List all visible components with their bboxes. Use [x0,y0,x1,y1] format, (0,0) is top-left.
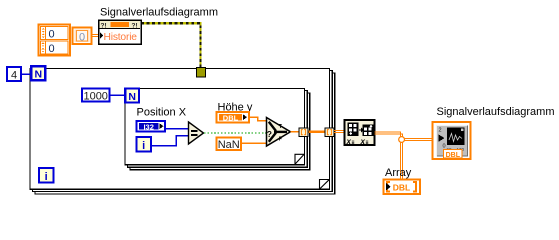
wire: inner tunnel to outer tunnel (1D array) [307,131,326,133]
wire junction dot [399,137,405,143]
svg-text:ij: ij [352,141,356,147]
wire: outer tunnel to transpose (2D array double) [334,131,345,133]
svg-text:2: 2 [439,128,442,134]
svg-text:4: 4 [11,69,17,81]
wire: 4 to N (blue scalar) [21,73,31,75]
iteration terminal i (outer) [39,168,54,183]
for-loop inner dog-ear corner [295,154,304,164]
svg-text:0: 0 [79,31,85,43]
iteration terminal i (inner) [137,137,152,152]
tunnel: inner loop indexing output [299,128,308,137]
for-loop outer (4 iterations) frame sheet 3 [35,73,335,194]
svg-text:i: i [45,171,48,183]
function node Select [267,118,291,147]
svg-text:Array: Array [385,167,412,179]
for-loop outer frame sheet 2 [33,71,333,192]
wire: junction down branch to Array indicator [401,143,403,181]
property node Signalverlaufsdiagramm [99,20,142,44]
wire: NaN to select f input [242,142,268,144]
tunnel: reference into outer loop (olive) [197,68,206,78]
for-loop outer frame sheet 1 [30,69,330,190]
wire: 1000 to N (blue scalar) [110,94,126,96]
svg-text:Historie: Historie [104,32,138,43]
label Hoehe y [218,101,253,113]
svg-text:ji: ji [365,141,370,147]
for-loop inner (1000 iterations) frame sheet 3 [130,93,310,170]
svg-text:I32: I32 [143,122,153,131]
terminal I32 (Position X control) [137,121,166,132]
svg-text:?!: ?! [132,22,138,29]
svg-text:DBL: DBL [223,113,239,122]
svg-text:N: N [35,69,43,81]
array constant 2D index frame [39,25,71,56]
svg-text:?!: ?! [101,22,107,29]
svg-text:Position X: Position X [137,106,187,118]
function node Transpose 2D Array [345,120,375,147]
svg-text:DBL: DBL [446,152,461,159]
svg-text:i: i [142,140,145,152]
wire: i (inner) to equal node [152,136,190,146]
tunnel: outer loop indexing output [325,128,334,137]
label Signalverlaufsdiagramm (chart) [437,106,555,118]
svg-text:?: ? [267,129,272,139]
loop count terminal N (inner) [125,89,139,103]
comparison node Equal? [189,122,204,144]
numeric constant 1000 [82,89,110,103]
svg-text:0: 0 [443,144,446,150]
numeric constant 4 [7,67,21,82]
wire: junction right branch to chart terminal [405,139,439,141]
wire: cluster constant to property node (2D array orange double) [91,35,99,37]
svg-text:N: N [128,91,136,103]
for-loop inner frame sheet 1 [125,89,305,165]
label Array [385,167,412,179]
wire: transpose output bends down to junction [375,132,403,137]
indicator terminal Array (1D DBL array) [384,180,421,195]
label Position X [137,106,187,118]
for-loop outer dog-ear corner [320,180,330,190]
terminal DBL (Hoehe y control) [217,112,250,123]
svg-text:NaN: NaN [218,139,240,151]
svg-text:Signalverlaufsdiagramm: Signalverlaufsdiagramm [100,7,218,19]
svg-text:0: 0 [48,29,54,41]
svg-text:0: 0 [48,43,54,55]
wire: chart reference dashed from property node to tunnel [141,23,201,68]
label Signalverlaufsdiagramm (top) [100,7,218,19]
wire: DBL terminal to select t input [247,117,267,121]
for-loop inner frame sheet 2 [128,91,308,168]
indicator terminal waveform chart Signalverlaufsdiagramm [433,122,471,159]
svg-text:Signalverlaufsdiagramm: Signalverlaufsdiagramm [437,106,555,118]
array constant element (empty DBL, grayed) [73,28,92,45]
svg-text:1000: 1000 [83,90,107,102]
wire: I32 terminal to equal node [164,128,189,130]
wire: equal to select (green dotted boolean) [204,132,267,134]
svg-text:DBL: DBL [393,182,410,192]
wire: select output to inner tunnel [291,131,301,133]
constant NaN [217,138,242,152]
loop count terminal N (outer) [31,66,45,80]
